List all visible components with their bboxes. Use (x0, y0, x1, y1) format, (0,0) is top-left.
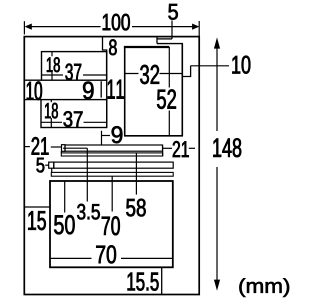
label 10 left (27, 82, 42, 101)
label 9 below rect2 (112, 126, 123, 143)
arrow down of dim 148 (214, 280, 220, 291)
card bottom edge (124, 135, 183, 137)
dim line 32 (125, 73, 183, 75)
card right edge (181, 44, 183, 136)
label 148 (213, 138, 241, 157)
sheet outline (24, 37, 199, 295)
big rect outline (50, 181, 173, 267)
leader 70 middle (111, 176, 113, 211)
rect2 label 37 (64, 111, 83, 127)
dim line 70 bottom (50, 257, 173, 259)
strip left connector (60, 151, 62, 153)
arrow left of dim 100 (25, 24, 32, 30)
dim line 148 (216, 48, 218, 280)
arrow up of dim 148 (214, 37, 220, 48)
strip3 left notch (49, 162, 54, 168)
extension tick right of dim 100 (198, 21, 200, 36)
leader 15 (24, 206, 50, 208)
dim line 52 (168, 47, 170, 136)
strip1 left box (62, 145, 66, 152)
leader 58 (135, 153, 137, 195)
leader 50 (64, 181, 66, 213)
band top line (24, 79, 41, 81)
tick 9 below rect2 (101, 131, 103, 145)
strip1 (65, 145, 163, 151)
dim line 100 (31, 26, 193, 28)
label 70 bottom (96, 245, 116, 263)
rect1 dim tick 18 (51, 52, 53, 81)
strip3 (54, 162, 173, 168)
label 100 (103, 14, 130, 31)
card top edge (124, 46, 169, 48)
label 15.5 (128, 273, 159, 291)
extension tick left of dim 100 (23, 21, 25, 34)
step line for dim 8 (103, 37, 107, 128)
label (mm) (239, 278, 289, 297)
strip4 (51, 172, 173, 176)
label 58 (126, 199, 145, 217)
strip4 left connector (51, 168, 53, 172)
leader 3.5 (86, 148, 88, 201)
label 10 right (232, 56, 250, 74)
extension tick for dim 5 (171, 21, 173, 39)
label 11 (108, 80, 124, 99)
card tab left side (156, 37, 158, 44)
card tab top (157, 38, 172, 40)
label 5 top (168, 4, 177, 20)
leader 5 left (45, 164, 49, 166)
rect2 dim line 37 (41, 121, 107, 123)
dash right of 21 (189, 147, 195, 149)
label 52 (157, 89, 176, 109)
leader 21 right (163, 147, 173, 149)
rect1 outline (42, 52, 107, 81)
label 21 right (173, 141, 189, 157)
strip1 mid line (63, 147, 87, 149)
arrow right of dim 100 (192, 24, 199, 30)
band bottom line (24, 99, 41, 101)
rect1 label 37 (65, 64, 81, 81)
label 50 (54, 215, 74, 234)
label 8 (109, 39, 117, 55)
label 9 band (83, 82, 93, 100)
card left edge (124, 47, 126, 136)
rect2 outline (41, 100, 107, 128)
tick 15.5 (161, 267, 163, 294)
card flap edge (157, 43, 183, 45)
strip right cap joint (162, 145, 164, 156)
label 5 left (37, 158, 45, 173)
rect2 dim tick 18 (50, 100, 52, 128)
strip2 (61, 153, 162, 156)
rect1 dim line 37 (42, 74, 107, 76)
leader 21 left dash (24, 146, 30, 148)
label 3.5 (77, 204, 100, 220)
rect1 label 18 (47, 57, 60, 72)
leader 21 left to strip (51, 146, 62, 148)
notch right edge (182, 66, 190, 77)
leader 10 right (191, 65, 229, 67)
band tick (100, 81, 102, 97)
label 32 (140, 65, 159, 84)
leader 9 below rect2 (102, 135, 111, 137)
label 21 left (32, 137, 49, 155)
rect2 label 18 (45, 103, 58, 119)
label 70 middle (102, 216, 120, 235)
label 15 (28, 211, 46, 230)
